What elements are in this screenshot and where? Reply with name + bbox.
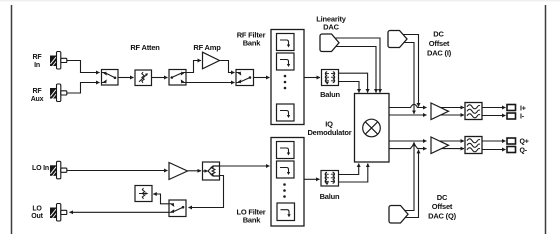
amplifier A3 (I diff amp)	[431, 103, 464, 120]
label RF Aux	[31, 88, 44, 103]
IQ demodulator U1	[355, 94, 390, 163]
svg-text:Bank: Bank	[243, 216, 262, 225]
svg-text:RF Amp: RF Amp	[193, 43, 221, 52]
connector J3 I plus	[507, 105, 516, 111]
switch S4 (LO out select)	[169, 200, 186, 217]
svg-text:In: In	[34, 62, 40, 69]
wire RF balun minus to demod	[339, 82, 360, 93]
wire RF balun plus to demod	[339, 73, 368, 92]
svg-text:I+: I+	[520, 105, 526, 112]
wire LO balun minus to demod	[339, 164, 368, 183]
connector J5 Q plus	[507, 138, 516, 144]
wire splitter to LO filter bank	[220, 165, 270, 167]
amplifier A2 (LO amp)	[169, 163, 188, 180]
filter FL1 (I output filter)	[465, 103, 482, 120]
wire RF amp to switch S3	[220, 61, 235, 73]
wire linearity DAC out B to demod	[334, 47, 376, 93]
svg-text:Q+: Q+	[520, 139, 529, 146]
label DC Offset DAC (I)	[427, 30, 452, 58]
connector J4 I minus	[507, 113, 516, 119]
wire filter to I minus connector	[482, 115, 506, 117]
label RF In	[33, 54, 43, 69]
wire LO bank to LO balun	[304, 178, 320, 180]
svg-text:Bank: Bank	[243, 39, 262, 48]
wire RF In to switch S1	[67, 61, 100, 73]
svg-text:RF: RF	[33, 88, 43, 95]
wire DAC Q out B up to Q minus line	[402, 150, 419, 218]
wire filter to Q plus connector	[482, 140, 506, 142]
wire LO amp to splitter	[188, 170, 202, 172]
label LO Out	[31, 206, 43, 221]
svg-text:DC: DC	[433, 30, 444, 39]
svg-text:Demodulator: Demodulator	[307, 128, 351, 137]
svg-text:Balun: Balun	[320, 192, 340, 201]
wire S3 to RF filter bank	[254, 77, 270, 79]
figure left border	[11, 5, 13, 234]
wire S2 to RF amp (up path)	[186, 61, 201, 73]
wire linearity DAC out A to demod	[334, 38, 380, 93]
switch S2 (amp bypass select)	[169, 70, 186, 86]
svg-text:DAC (I): DAC (I)	[427, 49, 452, 58]
wire demod I minus output	[389, 114, 427, 116]
label RF Filter Bank	[237, 31, 266, 48]
svg-text:I-: I-	[520, 114, 525, 121]
balun T2 (LO)	[321, 171, 339, 187]
filter FL2 (Q output filter)	[465, 137, 482, 154]
switch S1 (RF input select)	[102, 70, 119, 86]
wire DAC Q out A up to Q plus line	[402, 142, 414, 210]
svg-text:LO In: LO In	[32, 165, 49, 172]
svg-text:DC: DC	[437, 193, 448, 202]
connector J2 RF Aux	[50, 84, 67, 102]
wire LO In to LO amp	[67, 170, 168, 172]
svg-text:Offset: Offset	[432, 202, 453, 211]
DAC U3 DC Offset I	[388, 31, 407, 48]
svg-text:Balun: Balun	[320, 90, 340, 99]
svg-text:Aux: Aux	[31, 96, 44, 103]
attenuator AT1 (RF Atten)	[135, 70, 152, 86]
wire S4 to LO atten (termination path)	[153, 194, 169, 204]
connector J1 RF In	[50, 52, 67, 70]
wire filter to Q minus connector	[482, 149, 506, 151]
RF filter bank block	[271, 30, 304, 125]
wire bypass S2 to S3	[186, 82, 235, 84]
wire RF Aux to switch S1	[67, 83, 100, 94]
amplifier A1 RF Amp	[203, 52, 220, 69]
label Linearity DAC	[316, 15, 346, 32]
svg-text:Q-: Q-	[520, 147, 528, 154]
faint page top edge	[0, 0, 560, 1]
balun T1 (RF)	[322, 70, 339, 86]
wire S1 to attenuator	[118, 77, 134, 79]
DAC U4 DC Offset Q	[389, 206, 408, 224]
wire RF bank to RF balun	[304, 77, 320, 79]
power splitter PS1	[203, 162, 220, 180]
wire demod I plus output (with hop)	[389, 104, 427, 107]
svg-text:LO: LO	[32, 206, 42, 213]
connector J8 LO Out	[50, 204, 67, 222]
svg-text:DAC: DAC	[323, 23, 339, 32]
wire demod Q plus output	[389, 140, 427, 142]
DAC U2 Linearity	[320, 34, 339, 52]
svg-text:DAC (Q): DAC (Q)	[428, 212, 456, 221]
wire filter to I plus connector	[482, 107, 506, 109]
amplifier A4 (Q diff amp)	[431, 137, 464, 154]
attenuator AT2 (LO path)	[135, 186, 152, 202]
svg-text:RF Atten: RF Atten	[130, 43, 160, 52]
wire DAC I out A down to I plus line	[402, 35, 419, 107]
wire DAC I out B down to I minus line	[402, 43, 414, 114]
LO filter bank block	[271, 138, 304, 227]
wire LO balun plus to demod	[339, 164, 359, 175]
wire demod Q minus output (with hop)	[389, 145, 427, 148]
connector J7 LO In	[50, 161, 67, 179]
wire splitter down to LO out switch	[189, 176, 224, 208]
label IQ Demodulator	[307, 120, 351, 138]
wire attenuator to switch S2	[152, 77, 168, 79]
svg-text:RF: RF	[33, 54, 43, 61]
switch S3 (amp output select)	[236, 70, 254, 86]
svg-text:Offset: Offset	[429, 39, 450, 48]
connector J6 Q minus	[507, 147, 516, 153]
figure right border	[545, 5, 547, 234]
label DC Offset DAC (Q)	[428, 193, 456, 221]
wire S4 to LO Out connector	[70, 211, 170, 213]
svg-text:Out: Out	[31, 213, 43, 220]
label LO Filter Bank	[236, 208, 265, 225]
